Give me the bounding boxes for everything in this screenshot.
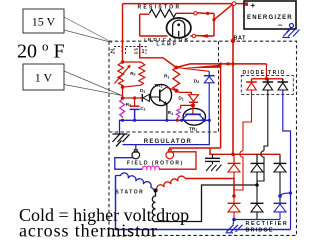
wire switch to energizer: [236, 3, 245, 5]
node line to D2: [123, 97, 143, 99]
diode D2 (black): [141, 94, 143, 102]
ignition switch terminal circle: [232, 2, 236, 6]
switch blade resistor branch: [197, 12, 206, 15]
rotor winding coil (pink): [143, 166, 160, 169]
current arrow on lamp branch: [200, 34, 208, 38]
energizer battery box: [244, 1, 296, 29]
stator coil C (black): [152, 191, 155, 222]
bridge diode top row 2 (black): [251, 163, 264, 203]
svg-text:BRIDGE: BRIDGE: [246, 227, 274, 233]
lamp filament: [173, 20, 185, 36]
emitter ground bus (blue): [119, 119, 209, 121]
bridge diode bottom row 2 (black): [251, 203, 264, 219]
brush 1: [134, 150, 137, 153]
trio diode 2 (black): [263, 79, 274, 151]
svg-text:R2: R2: [130, 71, 135, 77]
svg-text:D2: D2: [140, 88, 145, 94]
svg-text:D1: D1: [178, 96, 183, 102]
wire terminal 1 vertical + resistor left lead: [140, 14, 150, 36]
diode D3 (blue): [208, 71, 210, 75]
svg-text:–: –: [278, 21, 283, 30]
svg-text:R4: R4: [168, 110, 173, 116]
svg-text:across thermistor: across thermistor: [19, 221, 158, 240]
outer alternator dashed case: [109, 41, 297, 235]
junction dot BAT rail: [231, 62, 234, 65]
switch contact dot resistor branch: [206, 12, 209, 15]
node R1 top dot: [174, 66, 178, 70]
rectifier ground symbol (blue): [226, 220, 243, 233]
regulator ground symbol: [113, 134, 130, 147]
wire R1 to D3: [176, 68, 209, 72]
callout box 1 V: [23, 64, 64, 90]
R1 bottom node dot: [175, 89, 179, 93]
svg-text:TR2: TR2: [154, 83, 162, 89]
switch contact circle lamp branch: [192, 34, 195, 37]
B+ bus wire: [210, 148, 280, 154]
stator neutral dot: [154, 189, 158, 193]
wire resistor right lead: [176, 12, 194, 14]
energizer ground (blue): [283, 28, 300, 38]
svg-text:C1: C1: [140, 106, 145, 112]
stator phase C wire (black): [156, 185, 258, 222]
wire to D1: [177, 91, 192, 95]
regulator dashed sub-box: [109, 41, 219, 132]
R2 arrow head: [127, 65, 131, 69]
svg-text:STATOR: STATOR: [116, 190, 145, 196]
brush 1 lead: [135, 145, 137, 150]
junction dot field riser: [219, 62, 222, 65]
field winding loop right (red): [159, 152, 196, 169]
stator coil A (blue): [116, 173, 156, 191]
trio feed wire: [266, 64, 268, 79]
brush 2: [168, 150, 171, 153]
bridge diode top row 3 (black): [274, 163, 287, 203]
resistor R3 thermistor (magenta): [120, 100, 125, 119]
B+ bus dot at BAT rail: [231, 153, 235, 157]
suppression capacitor: [205, 154, 222, 171]
BAT terminal dot: [231, 39, 235, 43]
svg-text:BAT: BAT: [234, 36, 247, 42]
trio diode 1 (red): [243, 79, 257, 151]
svg-text:FIELD (ROTOR): FIELD (ROTOR): [127, 160, 184, 166]
svg-text:1 V: 1 V: [35, 71, 53, 85]
field winding loop left (blue): [115, 158, 143, 170]
stator phase B wire (red): [185, 179, 234, 197]
resistor R4 (thermal): [181, 105, 193, 108]
energizer - terminal circle (blue): [290, 24, 294, 28]
phase junction dots: [232, 194, 236, 198]
svg-text:20 o F: 20 o F: [17, 39, 65, 63]
wire BAT rail: [232, 5, 234, 154]
diode D1 (red): [189, 95, 199, 102]
transistor TR2: [150, 84, 171, 105]
svg-text:15 V: 15 V: [32, 15, 56, 29]
stator phase A wire (blue): [116, 176, 291, 230]
trio diode 3 (black, blue lead): [278, 79, 289, 90]
wire right rail joining branches: [207, 13, 214, 36]
resistor R (black zigzag): [150, 9, 176, 17]
bridge diode bottom row 3 (blue): [274, 203, 287, 219]
svg-text:2: 2: [110, 49, 113, 55]
wire node to BAT rail: [176, 64, 266, 68]
trio top bus: [252, 78, 284, 80]
wire terminal1 into regulator: [140, 44, 177, 68]
brush 2 lead wire to field feed: [170, 148, 221, 150]
svg-text:D3: D3: [194, 78, 199, 84]
TR2 emitter lead to bus: [166, 105, 168, 121]
callout leader 15V: [64, 17, 112, 43]
current arrowhead near BAT: [223, 62, 230, 66]
svg-text:1: 1: [142, 49, 145, 55]
B+ bus stubs to top diodes: [233, 154, 235, 163]
svg-text:LAMP: LAMP: [157, 42, 178, 48]
field blue wire: [123, 120, 210, 144]
svg-text:ENERGIZER: ENERGIZER: [247, 15, 293, 21]
current flow arrow (long): [179, 65, 220, 69]
connector plug dashed staples: [114, 47, 146, 55]
svg-text:TR1: TR1: [189, 126, 197, 132]
resistor R2 (lens pair): [115, 62, 145, 87]
indicator lamp bulb: [167, 18, 191, 38]
callout leader 1V: [64, 71, 122, 96]
switch contact dot lamp branch: [205, 34, 208, 37]
bus drop to regulator ground: [119, 120, 121, 133]
diode trio dashed box: [241, 75, 293, 94]
bus junction dots: [121, 119, 124, 122]
switch contact circle resistor branch: [194, 12, 197, 15]
wire lamp branch: [140, 35, 193, 37]
resistor R1: [173, 68, 180, 92]
R2 bottom dot + wire: [121, 85, 125, 89]
bridge diode top row 1 (red): [228, 163, 241, 203]
wire top horizontal battery feed: [123, 3, 232, 5]
svg-text:R1: R1: [164, 74, 169, 80]
svg-text:REGULATOR: REGULATOR: [144, 139, 192, 145]
wire field feed riser: [220, 64, 222, 148]
bridge diode bottom row 1 (red): [228, 203, 241, 219]
TR1 collector node dot: [191, 103, 195, 107]
svg-text:RESISTOR: RESISTOR: [138, 4, 182, 10]
callout box 15 V: [23, 9, 64, 33]
transistor TR1: [183, 108, 205, 125]
stator coil B (red): [156, 176, 186, 190]
switch blade lamp branch: [196, 35, 206, 38]
svg-text:RECTIFIER: RECTIFIER: [246, 221, 289, 227]
svg-text:+: +: [251, 1, 256, 10]
trio black lead join: [257, 151, 264, 185]
ignition switch pivot dot: [212, 18, 215, 21]
energizer + terminal (red): [245, 2, 248, 5]
trio red lead join: [234, 151, 243, 190]
ignition switch blade: [214, 4, 232, 19]
svg-text:DIODE TRIO: DIODE TRIO: [243, 70, 286, 76]
wire terminal2 to R2: [121, 60, 125, 64]
wire left vertical to terminal 2: [122, 4, 124, 62]
capacitor C1: [134, 98, 136, 106]
TR2 collector wire to R1 bottom: [167, 88, 177, 91]
ground bus: [234, 219, 280, 221]
